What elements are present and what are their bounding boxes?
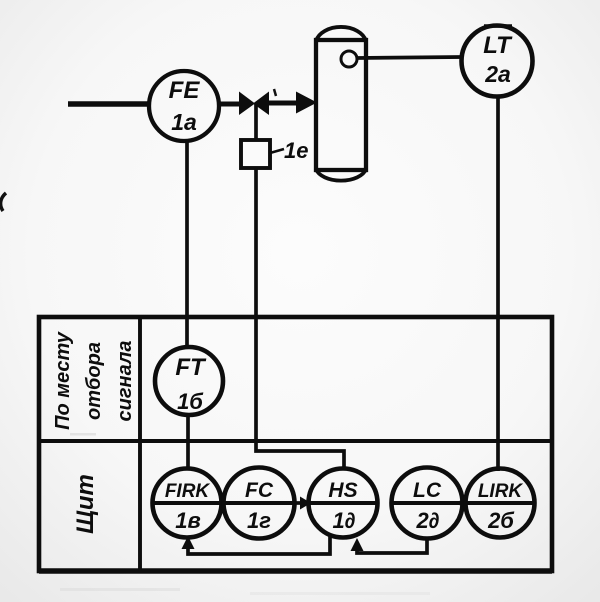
control valve — [239, 92, 255, 116]
svg-text:2∂: 2∂ — [415, 508, 439, 533]
flow element FE 1a — [149, 71, 219, 141]
label: po mestu otbora signala (rotated) — [52, 331, 136, 430]
svg-text:отбора: отбора — [83, 342, 105, 420]
wire: LC feedback to HS — [357, 538, 427, 553]
svg-text:FIRK: FIRK — [165, 481, 211, 502]
svg-text:FT: FT — [175, 354, 207, 381]
svg-text:По месту: По месту — [52, 331, 74, 430]
wire: box down to HS — [256, 168, 344, 470]
svg-text:LT: LT — [483, 32, 513, 59]
wire: pipe arrow into vessel — [268, 101, 299, 106]
wire: LT down to LIRK — [496, 96, 500, 471]
wire: nozzle to LT — [357, 57, 462, 58]
solenoid box 1e — [241, 140, 270, 168]
wire: process pipe into FE — [68, 101, 151, 107]
controller FC 1g — [224, 468, 295, 539]
wire: pipe FE to valve — [219, 102, 241, 107]
arrow into HS bottom — [351, 538, 364, 551]
svg-text:FE: FE — [169, 77, 201, 104]
flow transmitter FT 1b — [155, 347, 223, 415]
svg-text:1б: 1б — [177, 389, 204, 414]
svg-text:HS: HS — [328, 479, 357, 502]
scan smudges — [60, 588, 180, 591]
recorder FIRK 1v — [153, 469, 222, 538]
label: Schit (rotated) — [72, 474, 99, 534]
wire: FT down to FIRK — [186, 415, 190, 470]
stray scan mark left edge — [1, 193, 6, 211]
svg-text:2б: 2б — [487, 508, 515, 533]
leader to label 1e — [270, 149, 284, 153]
scan tick above valve — [274, 89, 276, 96]
vessel (column) — [316, 40, 366, 170]
wire: FE down to FT — [185, 141, 189, 348]
svg-text:1а: 1а — [171, 109, 197, 135]
wire: HS feedback to FIRK — [188, 535, 330, 554]
svg-text:LC: LC — [413, 479, 442, 502]
svg-text:Щит: Щит — [72, 474, 99, 534]
svg-text:1в: 1в — [175, 508, 201, 533]
svg-text:сигнала: сигнала — [114, 340, 136, 421]
table bottom border emphasis — [39, 568, 552, 574]
level controller LC 2d — [392, 468, 463, 539]
arrow into FIRK bottom — [182, 536, 195, 549]
svg-text:2а: 2а — [484, 61, 511, 87]
level transmitter LT 2a — [484, 24, 512, 28]
arrow LIRK to LC — [456, 497, 467, 510]
svg-text:LIRK: LIRK — [478, 481, 524, 502]
table outer border — [39, 317, 552, 571]
hand switch HS 1d — [309, 469, 378, 538]
svg-text:1е: 1е — [284, 138, 308, 163]
svg-text:1∂: 1∂ — [332, 508, 355, 533]
table vertical divider — [138, 317, 142, 571]
vessel nozzle — [341, 51, 357, 67]
recorder LIRK 2b — [466, 469, 535, 538]
arrow FC to HS — [294, 501, 303, 505]
table horizontal divider — [39, 439, 552, 443]
svg-text:FC: FC — [245, 479, 274, 502]
wire: valve stem to solenoid box — [254, 104, 258, 140]
svg-text:1г: 1г — [247, 508, 271, 533]
